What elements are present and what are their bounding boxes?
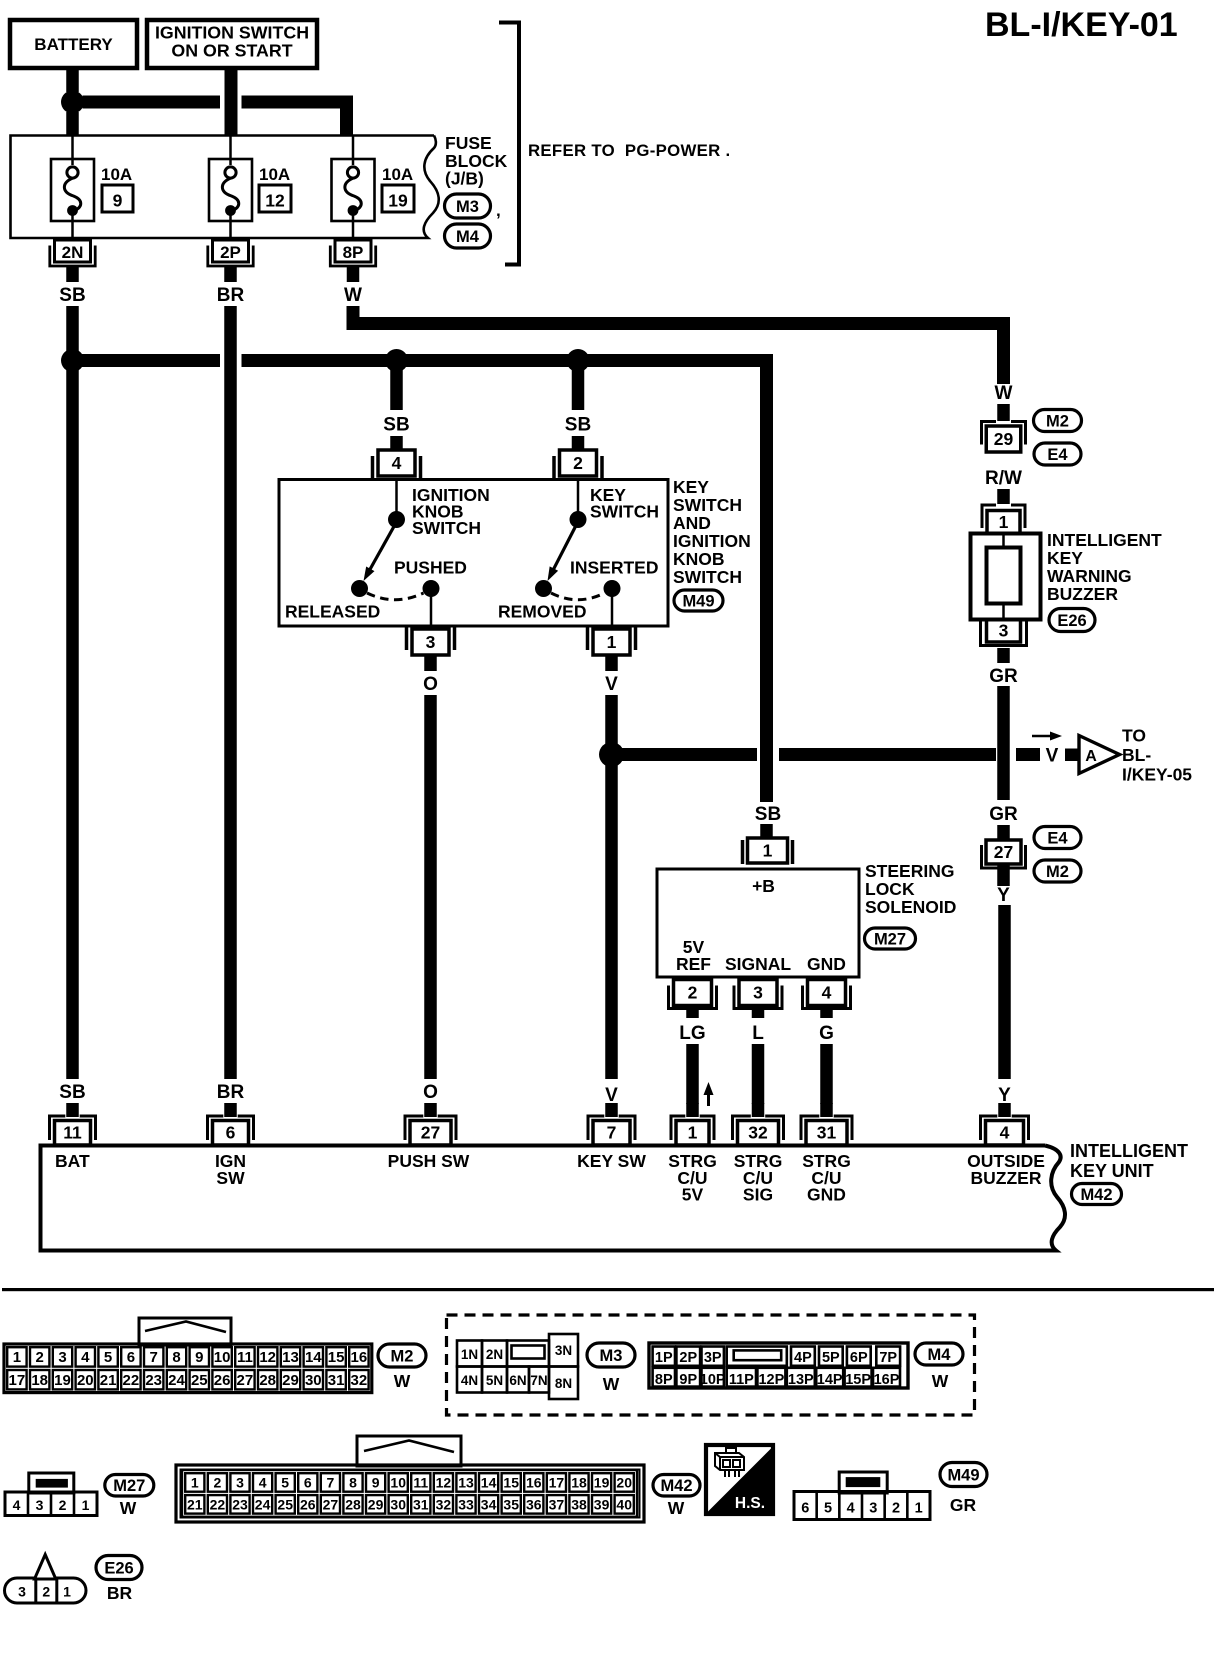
svg-text:4: 4	[822, 982, 832, 1002]
connector terminal 2P on fuse block	[213, 240, 249, 262]
connector oval M49 (face)	[940, 1463, 987, 1487]
svg-text:BL-I/KEY-01: BL-I/KEY-01	[985, 6, 1178, 44]
svg-text:M49: M49	[682, 592, 714, 610]
connector oval M2 (mid)	[1034, 860, 1081, 882]
connector terminal 1 on intelligent key unit	[686, 1103, 699, 1117]
svg-text:M3: M3	[600, 1347, 623, 1365]
svg-text:2: 2	[573, 453, 583, 473]
svg-text:14: 14	[481, 1475, 497, 1491]
svg-text:M3: M3	[456, 198, 479, 216]
svg-text:18: 18	[571, 1475, 587, 1491]
svg-text:REF: REF	[676, 954, 711, 974]
svg-text:10: 10	[390, 1475, 406, 1491]
svg-text:2: 2	[214, 1475, 222, 1491]
connector terminal 1 on solenoid	[741, 840, 745, 864]
connector terminal 7 on intelligent key unit	[605, 1103, 618, 1117]
contact RELEASED	[351, 580, 368, 597]
svg-text:23: 23	[145, 1372, 162, 1389]
svg-text:TO: TO	[1122, 726, 1146, 746]
wire V down to key unit pin 7	[605, 695, 618, 1079]
svg-text:4N: 4N	[461, 1373, 478, 1388]
svg-text:3: 3	[999, 621, 1009, 641]
wire O down to key unit pin 27	[424, 695, 437, 1079]
svg-text:KNOB: KNOB	[673, 549, 725, 569]
svg-text:O: O	[423, 674, 438, 695]
svg-text:18: 18	[31, 1372, 48, 1389]
svg-text:3: 3	[753, 982, 763, 1002]
svg-text:1: 1	[999, 512, 1009, 532]
svg-text:5N: 5N	[486, 1373, 503, 1388]
svg-text:38: 38	[571, 1497, 587, 1513]
svg-text:3: 3	[426, 632, 436, 652]
svg-text:BL-: BL-	[1122, 745, 1151, 765]
wire battery to junction	[66, 68, 79, 92]
svg-text:28: 28	[345, 1497, 361, 1513]
svg-text:1: 1	[191, 1475, 199, 1491]
svg-text:2: 2	[688, 982, 698, 1002]
battery bus wire to fuse 9/19	[83, 96, 221, 109]
svg-text:+B: +B	[752, 876, 775, 896]
svg-text:4: 4	[259, 1475, 267, 1491]
svg-text:4: 4	[847, 1501, 855, 1517]
svg-text:LG: LG	[679, 1023, 705, 1044]
connector face M42 40-pin	[176, 1465, 644, 1522]
dashed travel arc key switch	[551, 593, 605, 600]
svg-text:3N: 3N	[555, 1343, 572, 1358]
signal direction arrow beside LG wire	[707, 1093, 710, 1106]
svg-text:PUSHED: PUSHED	[394, 558, 467, 578]
connector face M49 6-pin	[794, 1492, 930, 1520]
connector oval M49	[674, 590, 723, 611]
fuse 10A 19	[352, 136, 355, 165]
svg-text:A: A	[1085, 748, 1097, 765]
svg-text:10A: 10A	[382, 165, 413, 184]
wire L down to key unit	[752, 1044, 765, 1104]
svg-text:KEY: KEY	[673, 477, 709, 497]
svg-text:,: ,	[496, 201, 501, 220]
svg-text:22: 22	[123, 1372, 140, 1389]
svg-text:M42: M42	[1080, 1186, 1112, 1204]
svg-text:W: W	[668, 1498, 685, 1518]
svg-text:10A: 10A	[101, 165, 132, 184]
svg-text:30: 30	[305, 1372, 322, 1389]
svg-text:39: 39	[594, 1497, 610, 1513]
svg-text:SWITCH: SWITCH	[412, 518, 481, 538]
svg-text:7: 7	[150, 1349, 158, 1366]
wire G down to key unit	[820, 1044, 833, 1104]
connector face M2 32-pin	[4, 1344, 372, 1393]
svg-text:23: 23	[232, 1497, 248, 1513]
svg-text:29: 29	[368, 1497, 384, 1513]
connector terminal 1 on M49 bottom	[586, 627, 590, 650]
svg-text:17: 17	[9, 1372, 26, 1389]
svg-text:SB: SB	[565, 415, 591, 436]
svg-text:30: 30	[390, 1497, 406, 1513]
svg-text:8: 8	[172, 1349, 180, 1366]
svg-text:10A: 10A	[259, 165, 290, 184]
connector terminal 27 (E4/M2)	[986, 840, 1021, 864]
wire battery junction into fuse block	[66, 112, 79, 136]
steering lock solenoid box M27	[657, 869, 859, 977]
page connector triangle A to BL-I/KEY-05	[1079, 736, 1120, 774]
svg-text:7: 7	[607, 1123, 617, 1143]
connector terminal 6 on intelligent key unit	[224, 1103, 237, 1117]
svg-text:8P: 8P	[655, 1372, 673, 1388]
connector terminal 3 on buzzer	[987, 620, 1021, 643]
separator line	[2, 1288, 1214, 1291]
fuse block (J/B) outline with torn right edge	[11, 136, 439, 239]
svg-text:G: G	[819, 1023, 834, 1044]
M4 keying slot	[734, 1350, 782, 1360]
svg-text:SWITCH: SWITCH	[673, 495, 742, 515]
svg-text:3: 3	[869, 1501, 877, 1517]
M49 top tab with bar	[839, 1472, 887, 1493]
svg-text:15: 15	[503, 1475, 519, 1491]
svg-text:M2: M2	[1046, 412, 1069, 430]
svg-text:11: 11	[63, 1123, 82, 1143]
svg-text:7P: 7P	[879, 1350, 897, 1366]
connector oval E4 (top)	[1034, 443, 1081, 465]
SB bus wire	[73, 354, 221, 367]
svg-text:2: 2	[42, 1584, 50, 1600]
connector face M4 16-pin	[649, 1343, 908, 1388]
svg-text:16: 16	[526, 1475, 542, 1491]
svg-text:16: 16	[351, 1349, 368, 1366]
svg-text:2N: 2N	[486, 1347, 503, 1362]
svg-text:E4: E4	[1047, 829, 1068, 847]
svg-text:35: 35	[503, 1497, 519, 1513]
svg-text:GR: GR	[989, 666, 1018, 687]
svg-text:GR: GR	[950, 1495, 977, 1515]
connector oval E4 (mid)	[1034, 827, 1081, 849]
connector oval M2 (face)	[378, 1344, 426, 1367]
svg-text:W: W	[932, 1371, 949, 1391]
svg-text:M42: M42	[660, 1477, 692, 1495]
svg-text:5: 5	[104, 1349, 112, 1366]
svg-text:7N: 7N	[530, 1373, 547, 1388]
wire W from 8P to connector 29	[353, 306, 1004, 384]
connector terminal 8P on fuse block	[335, 240, 371, 262]
svg-text:M27: M27	[113, 1477, 145, 1495]
connector terminal 2 on M49	[552, 456, 556, 480]
svg-text:32: 32	[748, 1123, 768, 1143]
intelligent key warning buzzer outline	[971, 534, 1041, 620]
svg-text:3P: 3P	[704, 1350, 722, 1366]
connector oval E26 (face)	[96, 1556, 142, 1580]
svg-text:IGNITION SWITCH: IGNITION SWITCH	[155, 23, 309, 43]
svg-text:Y: Y	[998, 1085, 1011, 1106]
svg-text:O: O	[423, 1082, 438, 1103]
svg-text:5V: 5V	[682, 1185, 704, 1205]
svg-text:W: W	[344, 285, 362, 306]
svg-text:W: W	[120, 1498, 137, 1518]
SB branch wire to M49 pin 4	[390, 367, 403, 410]
svg-text:26: 26	[214, 1372, 231, 1389]
svg-text:12: 12	[259, 1349, 276, 1366]
contact REMOVED	[535, 580, 552, 597]
svg-text:SW: SW	[216, 1168, 245, 1188]
svg-text:32: 32	[436, 1497, 452, 1513]
svg-text:20: 20	[77, 1372, 94, 1389]
svg-text:19: 19	[388, 191, 408, 211]
connector oval M3	[445, 194, 491, 218]
dashed group box around M3 and M4	[447, 1315, 975, 1415]
svg-text:2N: 2N	[62, 243, 84, 262]
ignition knob switch symbol	[395, 481, 398, 514]
svg-text:10: 10	[214, 1349, 231, 1366]
svg-text:31: 31	[817, 1123, 837, 1143]
svg-text:3: 3	[236, 1475, 244, 1491]
svg-text:24: 24	[255, 1497, 271, 1513]
svg-text:4P: 4P	[794, 1350, 812, 1366]
svg-text:INTELLIGENT: INTELLIGENT	[1070, 1141, 1188, 1161]
junction dot SB bus pin 4 branch	[385, 349, 408, 372]
svg-text:6: 6	[801, 1501, 809, 1517]
svg-text:FUSE: FUSE	[445, 133, 492, 153]
svg-text:25: 25	[277, 1497, 293, 1513]
connector terminal 27 on intelligent key unit	[424, 1103, 437, 1117]
svg-text:5P: 5P	[822, 1350, 840, 1366]
junction dot battery feed	[61, 91, 84, 114]
key switch symbol	[577, 481, 580, 514]
wire LG down to key unit	[686, 1044, 699, 1104]
svg-text:INTELLIGENT: INTELLIGENT	[1047, 530, 1162, 550]
svg-text:19: 19	[594, 1475, 610, 1491]
connector oval E26	[1049, 609, 1095, 632]
svg-text:9P: 9P	[679, 1372, 697, 1388]
svg-text:1: 1	[63, 1584, 71, 1600]
svg-text:BAT: BAT	[55, 1151, 90, 1171]
svg-text:2: 2	[59, 1497, 67, 1513]
fuse 10A 9	[71, 136, 74, 165]
svg-text:E4: E4	[1047, 446, 1068, 464]
junction dot SB bus left	[61, 349, 84, 372]
svg-text:REFER TO PG-POWER .: REFER TO PG-POWER .	[528, 141, 730, 160]
svg-text:AND: AND	[673, 513, 711, 533]
svg-text:KEY: KEY	[1047, 548, 1083, 568]
connector terminal 1 on buzzer	[982, 505, 996, 528]
refer-to bracket	[499, 23, 519, 265]
M2 connector top tab	[139, 1318, 231, 1345]
svg-text:27: 27	[323, 1497, 339, 1513]
svg-text:15P: 15P	[845, 1372, 871, 1388]
svg-text:21: 21	[187, 1497, 203, 1513]
svg-text:KEY UNIT: KEY UNIT	[1070, 1161, 1154, 1181]
svg-text:26: 26	[300, 1497, 316, 1513]
svg-text:IGNITION: IGNITION	[673, 531, 751, 551]
svg-text:8P: 8P	[343, 243, 364, 262]
buzzer inner element	[987, 548, 1021, 604]
svg-text:36: 36	[526, 1497, 542, 1513]
svg-text:22: 22	[210, 1497, 226, 1513]
svg-text:29: 29	[994, 429, 1014, 449]
svg-text:M4: M4	[928, 1346, 952, 1364]
svg-text:3: 3	[58, 1349, 66, 1366]
svg-text:21: 21	[100, 1372, 117, 1389]
wire ignition switch into fuse block	[225, 68, 238, 136]
svg-text:M27: M27	[874, 930, 906, 948]
svg-text:1P: 1P	[655, 1350, 673, 1366]
intelligent key unit box outline with torn right edge	[41, 1146, 1066, 1251]
fuse number box 19	[382, 185, 414, 212]
junction dot SB bus pin 2 branch	[567, 349, 590, 372]
svg-text:34: 34	[481, 1497, 497, 1513]
svg-text:9: 9	[113, 191, 123, 211]
svg-text:M2: M2	[391, 1347, 414, 1365]
svg-text:E26: E26	[104, 1559, 133, 1577]
M42 top tab	[357, 1436, 461, 1466]
connector face E26 3-pin	[5, 1578, 87, 1603]
connector terminal 3 on M49 bottom	[405, 627, 409, 650]
svg-text:27: 27	[237, 1372, 254, 1389]
svg-text:1: 1	[688, 1123, 698, 1143]
connector face M3 8-pin	[457, 1341, 482, 1367]
svg-text:13P: 13P	[788, 1372, 814, 1388]
svg-text:6: 6	[127, 1349, 135, 1366]
svg-text:SWITCH: SWITCH	[590, 502, 659, 522]
svg-text:2P: 2P	[220, 243, 241, 262]
svg-text:11P: 11P	[729, 1372, 754, 1388]
connector terminal 2N on fuse block	[55, 240, 91, 262]
svg-text:27: 27	[421, 1123, 440, 1143]
connector oval M4	[445, 224, 491, 248]
svg-text:1: 1	[915, 1501, 923, 1517]
svg-text:6: 6	[304, 1475, 312, 1491]
svg-text:BUZZER: BUZZER	[1047, 584, 1118, 604]
svg-text:GND: GND	[807, 1185, 846, 1205]
svg-text:SB: SB	[383, 415, 409, 436]
svg-text:M2: M2	[1046, 863, 1069, 881]
svg-text:SB: SB	[755, 804, 781, 825]
svg-text:GR: GR	[989, 804, 1018, 825]
dashed travel arc ignition knob	[367, 593, 424, 600]
svg-text:19: 19	[54, 1372, 71, 1389]
svg-text:SIGNAL: SIGNAL	[725, 954, 791, 974]
svg-text:PUSH SW: PUSH SW	[388, 1151, 470, 1171]
svg-text:17: 17	[549, 1475, 565, 1491]
svg-text:24: 24	[168, 1372, 185, 1389]
svg-text:3: 3	[36, 1497, 44, 1513]
svg-text:1: 1	[763, 840, 773, 860]
svg-text:12: 12	[436, 1475, 452, 1491]
svg-text:13: 13	[458, 1475, 474, 1491]
svg-text:8N: 8N	[555, 1376, 572, 1391]
svg-text:4: 4	[392, 453, 402, 473]
svg-text:KEY SW: KEY SW	[577, 1151, 646, 1171]
wire SB from 2N down to key unit pin 11	[66, 306, 79, 1079]
svg-text:33: 33	[458, 1497, 474, 1513]
svg-text:6N: 6N	[509, 1373, 526, 1388]
svg-text:4: 4	[81, 1349, 90, 1366]
svg-text:SWITCH: SWITCH	[673, 567, 742, 587]
connector face M27 4-pin	[5, 1492, 97, 1516]
SB branch wire to M49 pin 2	[572, 367, 585, 410]
svg-text:BUZZER: BUZZER	[971, 1168, 1042, 1188]
svg-text:WARNING: WARNING	[1047, 566, 1132, 586]
svg-text:11: 11	[413, 1475, 428, 1491]
svg-text:3: 3	[18, 1584, 26, 1600]
M27 top tab with bar	[29, 1473, 74, 1493]
connector terminal 29 (M2/E4)	[982, 422, 997, 445]
svg-text:RELEASED: RELEASED	[285, 602, 380, 622]
svg-text:28: 28	[259, 1372, 276, 1389]
wire BR from 2P down to key unit pin 6	[224, 306, 237, 1079]
svg-text:BATTERY: BATTERY	[34, 35, 113, 54]
svg-text:SOLENOID: SOLENOID	[865, 897, 956, 917]
svg-text:32: 32	[351, 1372, 368, 1389]
svg-text:13: 13	[282, 1349, 299, 1366]
svg-text:25: 25	[191, 1372, 208, 1389]
svg-text:E26: E26	[1057, 612, 1086, 630]
svg-text:20: 20	[616, 1475, 632, 1491]
ignition switch box	[147, 20, 317, 68]
connector oval M4 (face)	[915, 1343, 963, 1365]
svg-text:STEERING: STEERING	[865, 861, 954, 881]
connector oval M3 (face)	[587, 1343, 635, 1367]
svg-text:14: 14	[305, 1349, 322, 1366]
svg-text:1N: 1N	[461, 1347, 478, 1362]
svg-text:2: 2	[36, 1349, 44, 1366]
connector oval M2 (top)	[1034, 410, 1082, 432]
H.S. mini connector icon	[715, 1448, 744, 1477]
svg-text:4: 4	[13, 1497, 21, 1513]
svg-text:9: 9	[372, 1475, 380, 1491]
svg-text:12: 12	[265, 191, 285, 211]
svg-text:REMOVED: REMOVED	[498, 602, 586, 622]
fuse number box 9	[102, 185, 133, 212]
junction dot V branch	[599, 742, 624, 767]
svg-text:LOCK: LOCK	[865, 879, 915, 899]
E26 top triangle key	[35, 1555, 56, 1580]
connector terminal 3 on solenoid bottom	[739, 980, 777, 1006]
connector terminal 4 on M49	[371, 456, 375, 480]
connector oval M42	[1072, 1184, 1122, 1205]
connector terminal 4 on intelligent key unit	[998, 1103, 1011, 1117]
svg-text:6P: 6P	[850, 1350, 868, 1366]
svg-text:SB: SB	[59, 1082, 85, 1103]
contact INSERTED	[604, 580, 621, 597]
svg-text:W: W	[603, 1374, 620, 1394]
fuse 10A 12	[229, 136, 232, 165]
svg-text:V: V	[1046, 746, 1059, 767]
svg-text:ON OR START: ON OR START	[171, 41, 292, 61]
connector oval M27	[865, 928, 916, 949]
svg-text:1: 1	[82, 1497, 90, 1513]
svg-text:8: 8	[349, 1475, 357, 1491]
svg-text:40: 40	[616, 1497, 632, 1513]
svg-text:2P: 2P	[679, 1350, 697, 1366]
svg-text:GND: GND	[807, 954, 846, 974]
svg-text:5: 5	[281, 1475, 289, 1491]
svg-text:L: L	[752, 1023, 764, 1044]
connector terminal 32 on intelligent key unit	[752, 1103, 765, 1117]
svg-text:12P: 12P	[758, 1372, 784, 1388]
svg-text:(J/B): (J/B)	[445, 169, 484, 189]
svg-text:14P: 14P	[817, 1372, 843, 1388]
svg-text:15: 15	[328, 1349, 345, 1366]
svg-text:INSERTED: INSERTED	[570, 558, 658, 578]
svg-text:11: 11	[237, 1349, 253, 1366]
svg-text:M4: M4	[456, 228, 480, 246]
svg-text:W: W	[394, 1371, 411, 1391]
svg-text:37: 37	[549, 1497, 565, 1513]
fuse number box 12	[259, 185, 291, 212]
svg-text:2: 2	[892, 1501, 900, 1517]
battery box	[10, 20, 137, 68]
svg-text:6: 6	[226, 1123, 236, 1143]
svg-text:BR: BR	[217, 285, 245, 306]
svg-text:16P: 16P	[874, 1372, 900, 1388]
